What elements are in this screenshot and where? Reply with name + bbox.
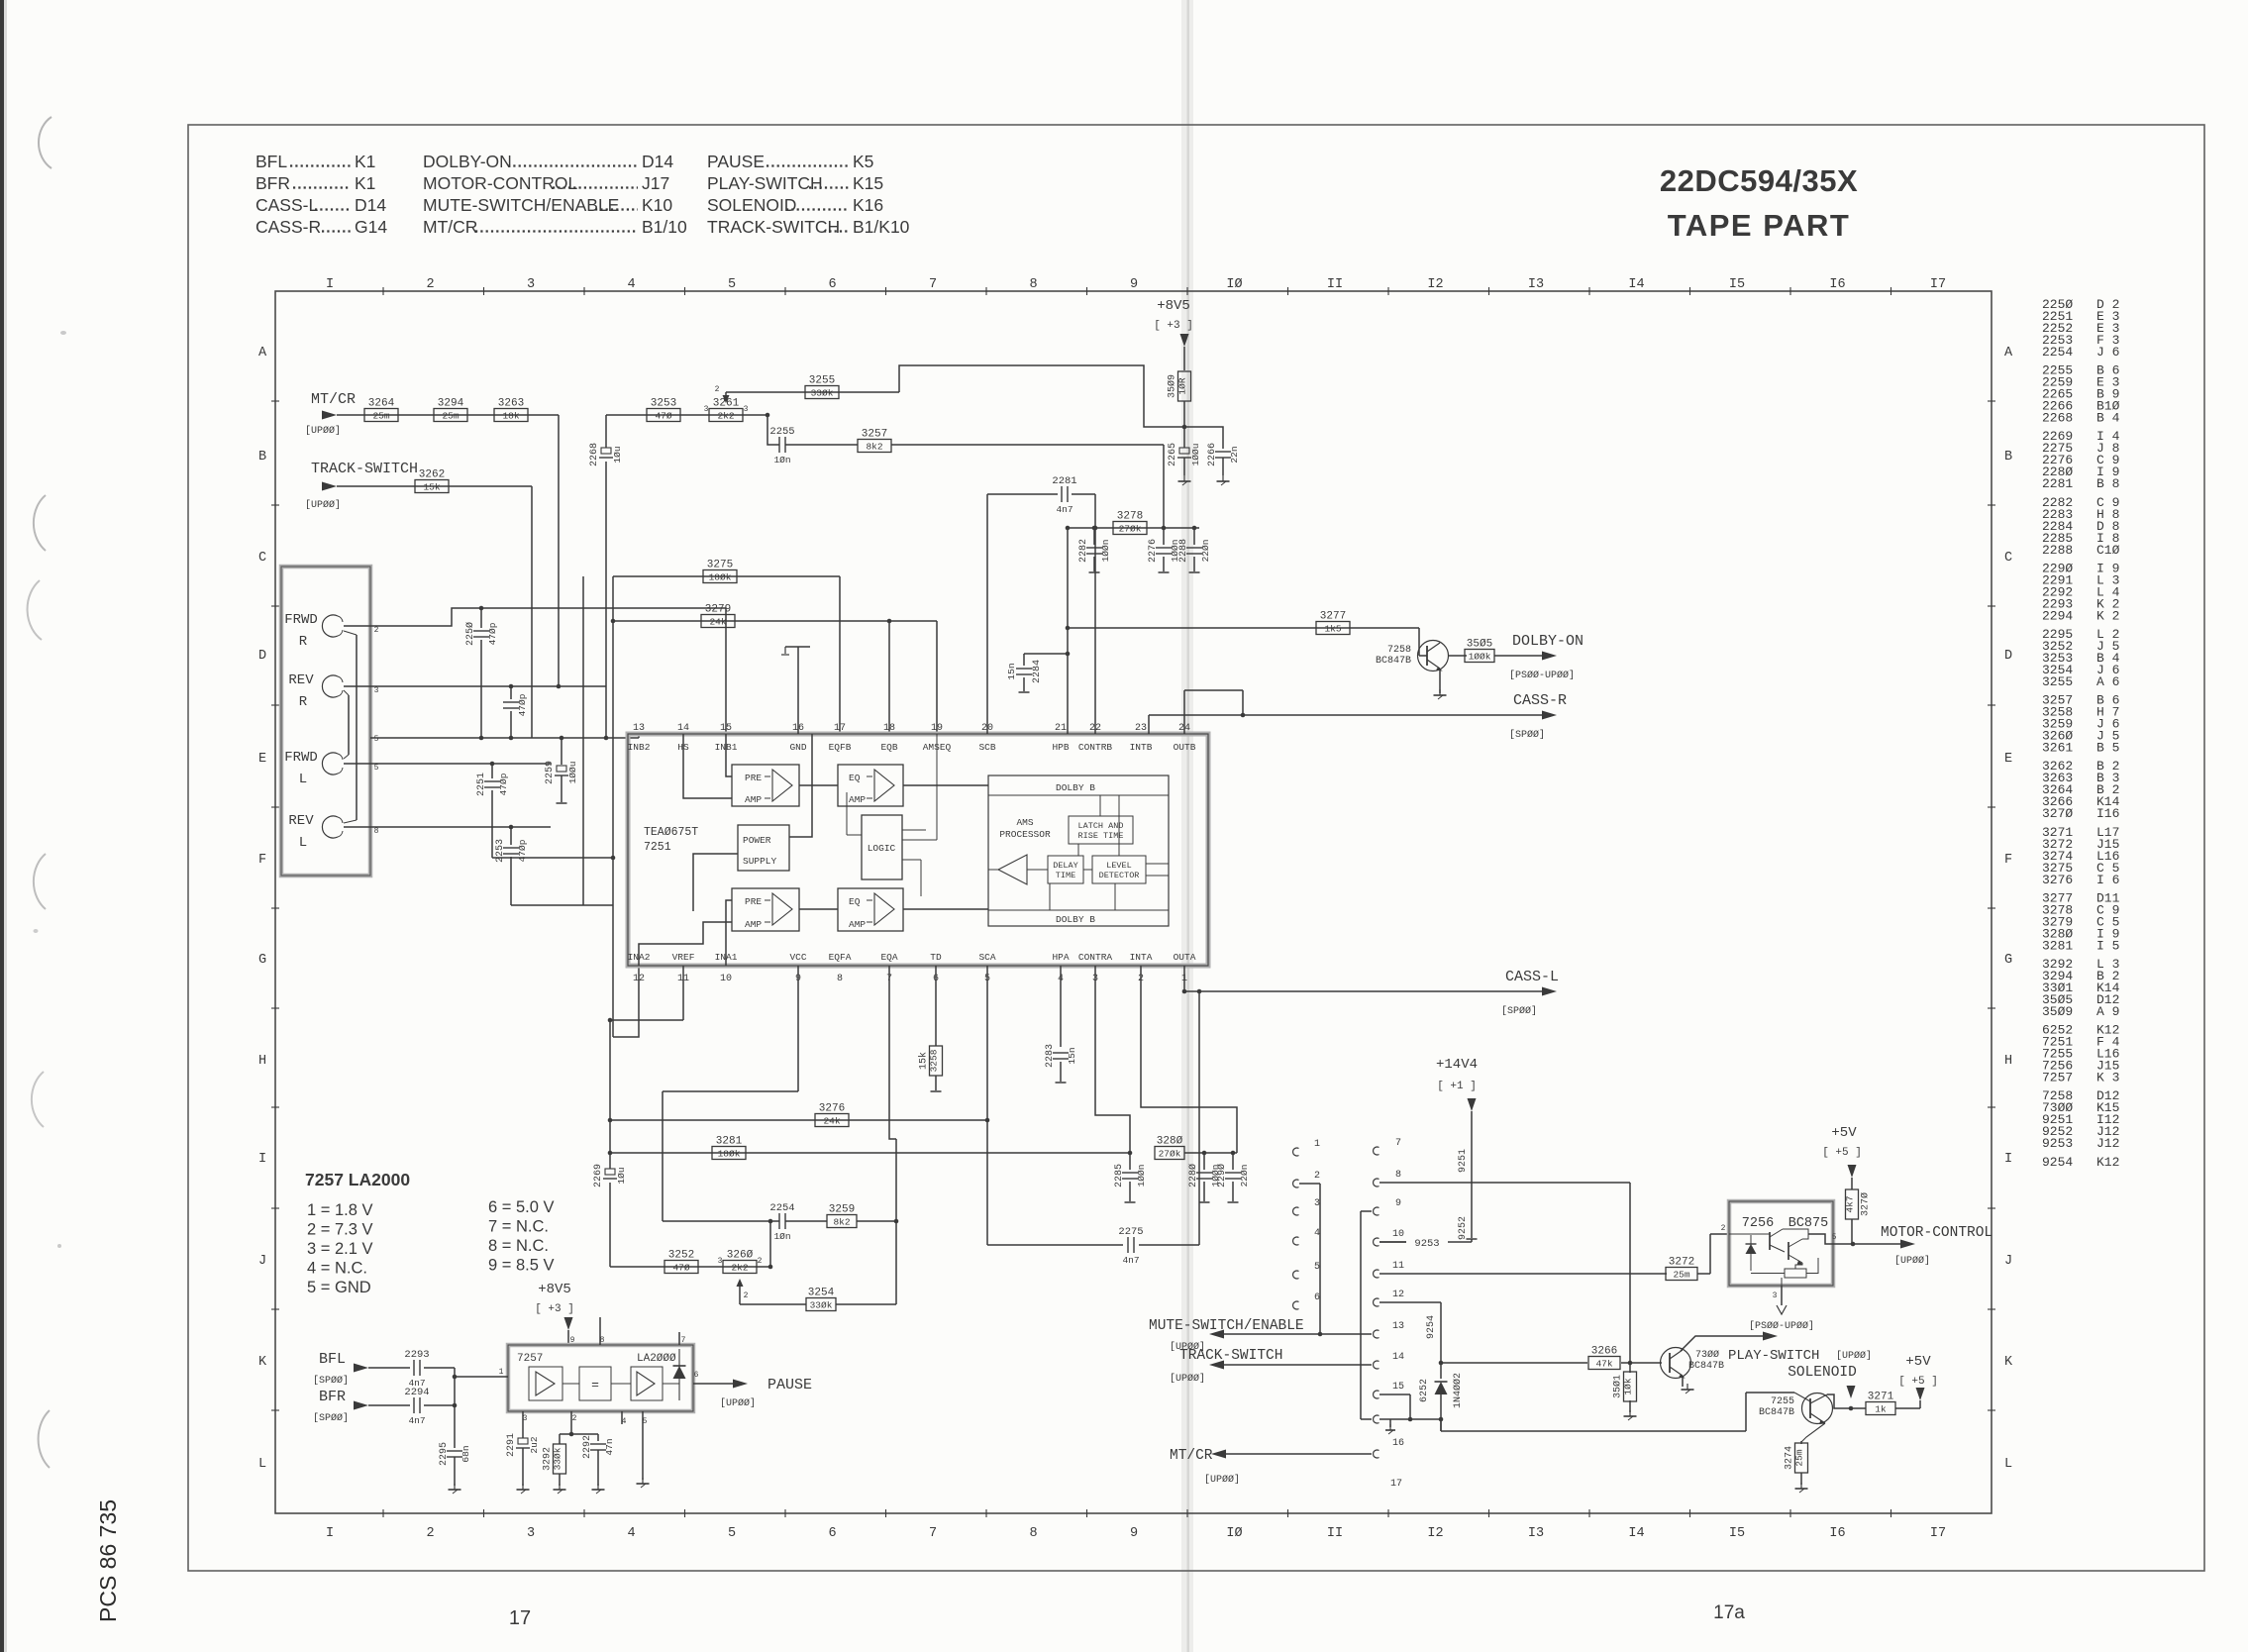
svg-text:1ØØu: 1ØØu xyxy=(567,762,578,784)
svg-text:MUTE-SWITCH/ENABLE: MUTE-SWITCH/ENABLE xyxy=(423,195,619,215)
svg-text:[ +5 ]: [ +5 ] xyxy=(1898,1376,1938,1388)
svg-text:CONTRA: CONTRA xyxy=(1078,952,1113,963)
pin 22 CONTRB xyxy=(1078,723,1113,753)
svg-text:9: 9 xyxy=(1130,277,1138,292)
capacitor 2293 xyxy=(404,1349,429,1389)
svg-text:8: 8 xyxy=(374,827,379,836)
grid row letters xyxy=(258,346,2013,1472)
pin 1 OUTA xyxy=(1174,952,1196,984)
svg-text:BFL: BFL xyxy=(319,1351,346,1368)
svg-text:C1Ø: C1Ø xyxy=(2096,543,2120,558)
resistor 3262 xyxy=(415,469,449,493)
capacitor 2282 xyxy=(1078,526,1111,572)
power supply block xyxy=(738,825,789,871)
svg-text:MUTE-SWITCH/ENABLE: MUTE-SWITCH/ENABLE xyxy=(1149,1318,1304,1334)
capacitor 2281 xyxy=(1052,475,1076,515)
svg-text:1 = 1.8 V: 1 = 1.8 V xyxy=(307,1201,373,1219)
7256 pin 3 out xyxy=(1749,1286,1814,1332)
svg-text:25m: 25m xyxy=(372,411,389,422)
svg-text:D14: D14 xyxy=(642,152,673,171)
long vertical 616 xyxy=(608,1020,613,1267)
svg-text:AMP: AMP xyxy=(745,919,762,930)
svg-text:19: 19 xyxy=(931,723,943,734)
svg-text:3263: 3263 xyxy=(498,398,524,410)
svg-text:G: G xyxy=(2004,953,2012,968)
svg-text:7 = N.C.: 7 = N.C. xyxy=(488,1218,549,1236)
svg-text:2: 2 xyxy=(374,626,379,635)
head connector box xyxy=(281,567,370,876)
wire 3277 row xyxy=(1066,626,1427,656)
svg-text:[UPØØ]: [UPØØ] xyxy=(1836,1350,1872,1362)
svg-text:TRACK-SWITCH: TRACK-SWITCH xyxy=(311,461,418,477)
svg-text:2281: 2281 xyxy=(1052,475,1076,487)
svg-text:HPA: HPA xyxy=(1052,952,1069,963)
wire 7256 output xyxy=(1808,1233,1855,1246)
wire 3252 row xyxy=(610,1221,772,1269)
svg-text:J: J xyxy=(2004,1254,2012,1269)
svg-text:[UPØØ]: [UPØØ] xyxy=(1894,1255,1930,1267)
svg-text:4n7: 4n7 xyxy=(1122,1255,1139,1266)
la2000 pin stubs top xyxy=(562,1317,686,1384)
transistor array 7256 BC875 xyxy=(1729,1201,1833,1286)
svg-text:25m: 25m xyxy=(1673,1270,1689,1281)
svg-text:9: 9 xyxy=(1130,1526,1138,1541)
svg-text:3278: 3278 xyxy=(1117,511,1143,523)
svg-text:I 6: I 6 xyxy=(2096,873,2119,887)
signal MT/CR (bottom) xyxy=(1170,1448,1372,1486)
svg-text:SOLENOID: SOLENOID xyxy=(1788,1365,1857,1381)
svg-text:18k: 18k xyxy=(502,411,519,422)
svg-text:TIME: TIME xyxy=(1056,871,1075,880)
la2000 amp1 xyxy=(529,1367,562,1400)
svg-text:CASS-L: CASS-L xyxy=(255,195,318,215)
dolby internal wires xyxy=(988,795,1169,910)
wire TRACK-SWITCH run xyxy=(337,485,532,487)
svg-text:2288: 2288 xyxy=(1178,539,1189,563)
svg-text:47Øp: 47Øp xyxy=(487,622,498,645)
la2000 amp2 xyxy=(631,1367,663,1400)
svg-text:3252: 3252 xyxy=(668,1250,694,1262)
svg-text:2275: 2275 xyxy=(1118,1226,1143,1238)
svg-text:+5V: +5V xyxy=(1831,1125,1857,1141)
jumper 9253 xyxy=(1379,1238,1472,1250)
pin 21 HPB xyxy=(1052,723,1069,753)
svg-text:BC847B: BC847B xyxy=(1759,1407,1794,1418)
svg-text:11: 11 xyxy=(1392,1261,1404,1272)
svg-text:8: 8 xyxy=(1029,1526,1037,1541)
svg-text:K10: K10 xyxy=(642,195,672,215)
wire inb1 to preB xyxy=(726,734,732,776)
svg-text:9254: 9254 xyxy=(1426,1315,1437,1339)
svg-text:PAUSE: PAUSE xyxy=(707,152,765,171)
svg-text:MT/CR: MT/CR xyxy=(423,217,477,237)
pin 5 SCA xyxy=(978,952,995,984)
resistor 3501 xyxy=(1612,1363,1637,1420)
svg-text:2266: 2266 xyxy=(1207,443,1218,466)
svg-text:PLAY-SWITCH: PLAY-SWITCH xyxy=(1728,1348,1819,1364)
svg-text:CASS-R: CASS-R xyxy=(1513,692,1567,709)
wire bottom bus xyxy=(1379,1393,1746,1431)
svg-text:228Ø: 228Ø xyxy=(1187,1164,1199,1187)
ground 7258 emitter xyxy=(1434,669,1447,699)
signal TRACK-SWITCH (bottom) xyxy=(1170,1348,1372,1385)
svg-text:2255: 2255 xyxy=(769,426,794,438)
resistor 3294 xyxy=(434,398,467,422)
pin 8 EQFA xyxy=(829,952,852,984)
schematic frame xyxy=(275,291,1992,1513)
svg-text:FRWD: FRWD xyxy=(284,750,318,766)
capacitor 2281 row xyxy=(987,494,1097,734)
svg-text:4: 4 xyxy=(627,1526,635,1541)
head REV R xyxy=(288,672,378,710)
svg-text:+14V4: +14V4 xyxy=(1436,1057,1478,1073)
svg-text:+5V: +5V xyxy=(1905,1354,1931,1370)
op-amp IC TEA0675T 7251 body xyxy=(628,734,1208,966)
svg-text:K12: K12 xyxy=(2096,1155,2119,1170)
wire contact 12 run xyxy=(1379,1302,1441,1379)
svg-text:BC847B: BC847B xyxy=(1376,656,1411,667)
svg-text:D: D xyxy=(258,649,266,664)
svg-text:TAPE PART: TAPE PART xyxy=(1668,208,1851,243)
svg-text:18Øk: 18Øk xyxy=(718,1149,741,1160)
svg-text:MT/CR: MT/CR xyxy=(311,391,356,408)
signal CASS-R xyxy=(1149,690,1567,741)
svg-text:[PSØØ-UPØØ]: [PSØØ-UPØØ] xyxy=(1509,670,1575,681)
svg-text:A 9: A 9 xyxy=(2096,1004,2119,1019)
svg-text:L: L xyxy=(2004,1457,2012,1472)
svg-text:6: 6 xyxy=(828,1526,836,1541)
svg-text:2: 2 xyxy=(572,1414,577,1423)
svg-text:7255: 7255 xyxy=(1771,1396,1794,1407)
svg-text:47Ø: 47Ø xyxy=(672,1263,689,1274)
voltage table xyxy=(307,1198,555,1296)
pin 9 VCC xyxy=(789,952,806,984)
svg-text:BC847B: BC847B xyxy=(1688,1361,1724,1372)
resistor 3253 xyxy=(647,398,680,422)
resistor 3276 xyxy=(815,1103,849,1127)
svg-text:5: 5 xyxy=(728,1526,736,1541)
svg-text:[UPØØ]: [UPØØ] xyxy=(305,425,341,437)
capacitor 2255 xyxy=(769,426,794,465)
wire preA-eqA xyxy=(799,908,838,910)
svg-text:3: 3 xyxy=(374,686,379,695)
wire row 914 xyxy=(511,904,613,906)
svg-text:2268: 2268 xyxy=(589,443,600,466)
svg-text:VREF: VREF xyxy=(672,952,695,963)
capacitor 2265 xyxy=(1168,443,1201,475)
wire VCC loop xyxy=(663,966,798,1221)
svg-text:CASS-L: CASS-L xyxy=(1505,969,1559,985)
svg-text:22Øn: 22Øn xyxy=(1239,1165,1250,1187)
pin 14 HS xyxy=(677,723,689,753)
svg-text:1Øn: 1Øn xyxy=(773,1231,790,1242)
svg-text:LATCH AND: LATCH AND xyxy=(1078,821,1124,831)
svg-text:2291: 2291 xyxy=(506,1433,517,1457)
svg-text:VCC: VCC xyxy=(789,952,806,963)
svg-text:1Øu: 1Øu xyxy=(612,446,623,463)
svg-text:GND: GND xyxy=(789,742,806,753)
svg-text:F: F xyxy=(2004,853,2012,868)
svg-text:2: 2 xyxy=(426,277,434,292)
resistor 3254 xyxy=(806,1288,836,1311)
pre-amp A (bottom) xyxy=(732,888,799,931)
scan margin artifacts xyxy=(28,117,66,1468)
svg-text:327Ø: 327Ø xyxy=(1860,1192,1872,1216)
wire 3266 row xyxy=(1441,1361,1662,1366)
pre-amp B (top) xyxy=(732,765,799,806)
svg-text:1Øu: 1Øu xyxy=(616,1167,627,1184)
capacitor 2285 xyxy=(1114,1153,1147,1202)
svg-text:47Ø: 47Ø xyxy=(655,411,671,422)
svg-text:EQ: EQ xyxy=(849,773,861,783)
ams amp triangle xyxy=(998,855,1027,884)
svg-text:[UPØØ]: [UPØØ] xyxy=(1204,1474,1240,1486)
ground 2266 xyxy=(1217,458,1230,485)
pin 15 INB1 xyxy=(715,723,738,753)
svg-text:5 = GND: 5 = GND xyxy=(307,1279,371,1296)
pin 6 TD xyxy=(930,952,942,984)
svg-text:3276: 3276 xyxy=(819,1103,845,1115)
logic block xyxy=(862,815,902,879)
capacitor 2275 xyxy=(1118,1226,1143,1266)
svg-text:IØ: IØ xyxy=(1226,1526,1242,1541)
svg-text:1k: 1k xyxy=(1875,1404,1887,1415)
eq-amp B (top) xyxy=(838,765,903,806)
svg-text:+8V5: +8V5 xyxy=(538,1282,571,1297)
svg-text:17: 17 xyxy=(834,723,846,734)
svg-text:47n: 47n xyxy=(604,1438,615,1455)
signal MUTE-SWITCH/ENABLE xyxy=(1149,1318,1372,1353)
svg-text:POWER: POWER xyxy=(743,835,771,846)
svg-text:1: 1 xyxy=(499,1368,504,1377)
resistor 3505 xyxy=(1448,639,1494,663)
svg-text:B 8: B 8 xyxy=(2096,476,2119,491)
svg-text:B 5: B 5 xyxy=(2096,741,2119,756)
svg-text:3: 3 xyxy=(527,1526,535,1541)
svg-text:5: 5 xyxy=(374,764,379,773)
svg-text:2259: 2259 xyxy=(545,761,556,784)
svg-text:73ØØ: 73ØØ xyxy=(1695,1349,1719,1361)
resistor 3264 xyxy=(364,398,398,422)
pin 17 EQFB xyxy=(829,723,852,753)
svg-text:3271: 3271 xyxy=(1868,1392,1894,1403)
la2000 diode xyxy=(673,1349,686,1400)
svg-text:3254: 3254 xyxy=(808,1288,835,1299)
connector internal links xyxy=(344,631,357,823)
jumper 9251/9252 xyxy=(1458,1111,1478,1240)
svg-text:J: J xyxy=(258,1254,266,1269)
svg-text:H: H xyxy=(2004,1054,2012,1069)
head REV L xyxy=(288,813,378,851)
signal MT/CR (left) xyxy=(305,391,356,437)
la2000 pin5 ground xyxy=(637,1411,650,1488)
svg-text:4n7: 4n7 xyxy=(408,1415,425,1426)
wire preB-eqB xyxy=(799,784,838,786)
switch column 1 xyxy=(1293,1139,1320,1309)
svg-text:6: 6 xyxy=(1314,1292,1320,1303)
capacitor 2254 xyxy=(769,1202,794,1242)
svg-text:327Ø: 327Ø xyxy=(2042,806,2073,821)
svg-text:47Øp: 47Øp xyxy=(517,839,528,862)
signal PLAY-SWITCH xyxy=(1681,1332,1819,1365)
capacitor 2276 xyxy=(1148,528,1180,572)
svg-text:A: A xyxy=(2004,346,2013,361)
svg-text:TRACK-SWITCH: TRACK-SWITCH xyxy=(1179,1348,1282,1364)
svg-text:8k2: 8k2 xyxy=(866,442,882,453)
wire pin15 riser xyxy=(725,608,727,734)
pin 2 INTA xyxy=(1130,952,1153,984)
svg-text:5: 5 xyxy=(374,735,379,744)
svg-text:9252: 9252 xyxy=(1458,1216,1469,1240)
svg-text:1Øn: 1Øn xyxy=(773,455,790,465)
svg-text:2k2: 2k2 xyxy=(731,1263,748,1274)
transistor 7258 xyxy=(1376,641,1449,671)
svg-text:3: 3 xyxy=(1773,1291,1778,1300)
resistor 3275 xyxy=(703,560,737,583)
svg-text:17: 17 xyxy=(509,1607,531,1629)
svg-text:33Øk: 33Øk xyxy=(810,1300,833,1311)
svg-text:K1: K1 xyxy=(355,173,375,193)
wire hs to preB xyxy=(683,734,732,798)
power +5V (solenoid) xyxy=(1895,1354,1938,1408)
svg-text:9: 9 xyxy=(570,1336,575,1345)
svg-text:8: 8 xyxy=(837,974,843,984)
svg-text:2: 2 xyxy=(1721,1224,1726,1233)
svg-text:H: H xyxy=(258,1054,266,1069)
svg-text:REV: REV xyxy=(288,672,314,688)
svg-text:14: 14 xyxy=(677,723,689,734)
svg-text:12: 12 xyxy=(633,974,645,984)
svg-text:18Øk: 18Øk xyxy=(709,572,732,583)
svg-text:5: 5 xyxy=(728,277,736,292)
svg-text:3264: 3264 xyxy=(368,398,395,410)
svg-text:3266: 3266 xyxy=(1591,1346,1617,1358)
svg-text:7256: 7256 xyxy=(1742,1216,1774,1231)
svg-text:LOGIC: LOGIC xyxy=(868,843,896,854)
svg-text:PRE: PRE xyxy=(745,896,762,907)
capacitor 2259 xyxy=(545,738,578,803)
svg-text:2295: 2295 xyxy=(439,1442,450,1466)
svg-text:22DC594/35X: 22DC594/35X xyxy=(1660,163,1858,198)
svg-text:K: K xyxy=(2004,1355,2013,1370)
svg-text:4: 4 xyxy=(1314,1228,1320,1239)
svg-text:CONTRB: CONTRB xyxy=(1078,742,1113,753)
resistor 3281 xyxy=(712,1136,746,1160)
svg-text:D14: D14 xyxy=(355,195,386,215)
svg-text:L: L xyxy=(258,1457,266,1472)
svg-text:225Ø: 225Ø xyxy=(464,622,476,646)
svg-text:TEAØ675T: TEAØ675T xyxy=(644,826,698,839)
svg-text:3294: 3294 xyxy=(438,398,464,410)
svg-text:35Ø9: 35Ø9 xyxy=(2042,1004,2073,1019)
svg-text:2: 2 xyxy=(426,1526,434,1541)
svg-text:13: 13 xyxy=(1392,1321,1404,1332)
capacitor 2284 xyxy=(1006,528,1070,734)
resistor 3252 xyxy=(664,1250,698,1274)
svg-text:2: 2 xyxy=(758,1257,763,1266)
svg-text:1ØØu: 1ØØu xyxy=(1190,444,1201,466)
svg-text:D: D xyxy=(2004,649,2012,664)
svg-text:7257 LA2000: 7257 LA2000 xyxy=(305,1170,410,1189)
wire TRACK-SWITCH drop xyxy=(531,486,533,738)
svg-text:33Øk: 33Øk xyxy=(811,388,834,399)
svg-text:2293: 2293 xyxy=(404,1349,429,1361)
pin 10 INA1 xyxy=(715,952,738,984)
ground 2265 xyxy=(1183,475,1185,481)
svg-text:K: K xyxy=(258,1355,267,1370)
signal BFR xyxy=(313,1389,410,1424)
trimmer 3260 xyxy=(718,1250,763,1305)
svg-text:SCB: SCB xyxy=(978,742,995,753)
svg-text:3: 3 xyxy=(704,405,709,414)
wire contact 10 stub xyxy=(1379,1241,1406,1243)
svg-text:3272: 3272 xyxy=(1669,1257,1694,1269)
wire contact 8 run xyxy=(1379,1183,1630,1363)
svg-text:TD: TD xyxy=(930,952,942,963)
resistor 3259 xyxy=(827,1204,857,1228)
svg-text:2253: 2253 xyxy=(495,839,506,863)
svg-text:16: 16 xyxy=(1392,1438,1404,1449)
svg-text:G14: G14 xyxy=(355,217,387,237)
svg-text:6: 6 xyxy=(828,277,836,292)
scan left edge shadow xyxy=(0,0,7,1652)
svg-text:B1/K10: B1/K10 xyxy=(853,217,910,237)
resistor 3271 xyxy=(1866,1392,1895,1415)
svg-text:I 5: I 5 xyxy=(2096,938,2119,953)
pin 24 OUTB xyxy=(1174,723,1196,753)
svg-text:2: 2 xyxy=(1314,1171,1320,1182)
resistor 3277 xyxy=(1316,611,1350,635)
wire BFL/BFR join xyxy=(424,1368,508,1448)
wire FRWD L xyxy=(344,763,551,765)
svg-text:LEVEL: LEVEL xyxy=(1106,861,1132,871)
wire power supply feeds xyxy=(693,854,738,911)
resistor 3272 xyxy=(1666,1257,1697,1281)
svg-text:2281: 2281 xyxy=(2042,476,2073,491)
svg-text:DOLBY B: DOLBY B xyxy=(1056,782,1095,793)
wire eqB-dolby xyxy=(903,784,988,786)
pin 3 CONTRA xyxy=(1078,952,1113,984)
svg-text:K1: K1 xyxy=(355,152,375,171)
svg-text:328Ø: 328Ø xyxy=(1157,1136,1183,1148)
svg-text:PROCESSOR: PROCESSOR xyxy=(999,829,1051,840)
signal PAUSE xyxy=(693,1371,812,1409)
svg-text:B1/10: B1/10 xyxy=(642,217,687,237)
wire pin13 riser xyxy=(638,734,640,738)
svg-text:27Øk: 27Øk xyxy=(1119,524,1142,535)
resistor 3279 xyxy=(701,604,735,628)
wire 7255 collector out xyxy=(1827,1394,1866,1408)
svg-text:17a: 17a xyxy=(1713,1602,1745,1623)
svg-text:DOLBY-ON: DOLBY-ON xyxy=(1512,633,1584,650)
level detector block xyxy=(1092,856,1146,883)
resistor 3274 xyxy=(1785,1423,1826,1493)
svg-text:1ØØn: 1ØØn xyxy=(1100,540,1111,563)
power +8V5 top xyxy=(1154,298,1193,370)
wire ina2 to preA xyxy=(639,922,732,966)
pin 4 HPA xyxy=(1052,952,1069,984)
svg-text:10: 10 xyxy=(720,974,732,984)
long vertical 619 xyxy=(612,576,614,1037)
svg-text:3275: 3275 xyxy=(707,560,733,571)
resistor 3292 xyxy=(543,1411,599,1494)
svg-text:G: G xyxy=(258,953,266,968)
svg-text:8k2: 8k2 xyxy=(833,1217,850,1228)
svg-text:2265: 2265 xyxy=(1168,443,1178,466)
svg-text:[ +1 ]: [ +1 ] xyxy=(1437,1081,1477,1092)
svg-text:I2: I2 xyxy=(1427,1526,1443,1541)
svg-text:35Ø5: 35Ø5 xyxy=(1467,639,1492,651)
